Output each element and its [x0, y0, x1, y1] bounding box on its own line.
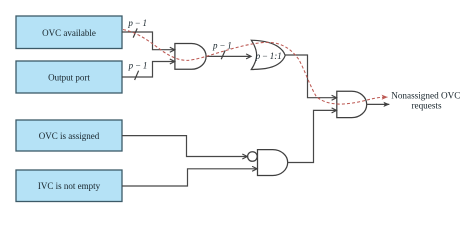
wire U3 output up to AND U4 bottom input [288, 110, 337, 162]
bus slash on OVC available wire [133, 28, 137, 37]
output wire of U4 with arrow [367, 103, 390, 105]
wire Output port to AND U1 bottom input [122, 62, 175, 78]
red dashed request path [123, 30, 388, 105]
svg-text:OVC available: OVC available [42, 28, 96, 38]
bus slash on U1 output wire [221, 50, 225, 59]
svg-text:p − 1: p − 1 [212, 40, 232, 50]
input box OVC available [16, 16, 122, 49]
input box Output port [16, 61, 122, 93]
wire U1 output to OR U2 [206, 55, 251, 57]
svg-text:p − 1:1: p − 1:1 [255, 51, 282, 61]
svg-text:p − 1: p − 1 [127, 18, 147, 28]
svg-text:OVC is assigned: OVC is assigned [39, 131, 100, 141]
svg-text:p − 1: p − 1 [128, 61, 148, 71]
OR gate U2 (p-1:1) [251, 40, 285, 69]
svg-text:Output port: Output port [48, 73, 90, 83]
AND gate U3 (inverted top input) [258, 150, 288, 176]
wire OVC is assigned to NAND-input bubble [122, 136, 247, 157]
input box IVC is not empty [16, 170, 122, 202]
svg-text:IVC is not empty: IVC is not empty [38, 181, 101, 191]
bus slash on Output port wire [135, 71, 139, 80]
wire OVC available to AND U1 top input [122, 32, 175, 50]
svg-text:Nonassigned OVC: Nonassigned OVC [391, 90, 460, 100]
wire IVC is not empty to U3 bottom input [122, 169, 257, 186]
AND gate U4 (final) [337, 91, 367, 117]
inverter bubble on U3 top input [248, 152, 258, 162]
input box OVC is assigned [16, 120, 122, 151]
AND gate U1 [175, 44, 206, 70]
label Nonassigned OVC requests [391, 90, 460, 110]
wire U2 output down to AND U4 top input [285, 55, 336, 98]
svg-text:requests: requests [411, 100, 442, 110]
